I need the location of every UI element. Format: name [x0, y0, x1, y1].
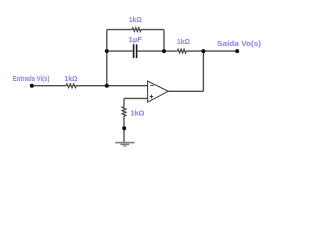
- node: ground branch dot: [122, 126, 126, 130]
- node: output junction dot: [201, 49, 205, 53]
- wire: top branch left lead: [107, 29, 132, 31]
- resistor R2 1k (top feedback) zigzag: [132, 28, 141, 32]
- svg-text:Saída Vo(s): Saída Vo(s): [217, 39, 262, 48]
- resistor R3 1k (output series) zigzag: [177, 49, 186, 53]
- resistor R4 1k (to ground) vertical zigzag: [122, 107, 126, 116]
- wire: left vertical from top branch to inverting-input node: [106, 30, 108, 86]
- wire: inverting node to op-amp minus input: [107, 85, 148, 87]
- svg-text:1kΩ: 1kΩ: [65, 74, 78, 83]
- node: right RC junction dot: [162, 49, 166, 53]
- node: inverting junction dot: [105, 84, 109, 88]
- wire: R3 to output node: [186, 50, 203, 52]
- op-amp plus sign: [150, 95, 154, 99]
- wire: right vertical of top branch: [163, 30, 165, 51]
- wire: op-amp plus input horizontal: [124, 97, 148, 99]
- op-amp U1 triangle: [148, 81, 169, 102]
- wire: capacitor right lead: [137, 50, 164, 52]
- svg-text:1kΩ: 1kΩ: [131, 108, 145, 117]
- svg-text:1µF: 1µF: [129, 35, 143, 44]
- wire: capacitor left lead: [107, 50, 133, 52]
- wire: input terminal to R1: [32, 85, 66, 87]
- wire: R1 to inverting node: [76, 85, 107, 87]
- node: left RC junction dot: [105, 49, 109, 53]
- wire: lead from node to R3: [164, 50, 177, 52]
- svg-text:1kΩ: 1kΩ: [129, 15, 142, 24]
- svg-text:1kΩ: 1kΩ: [177, 37, 190, 46]
- wire: R4 bottom to ground node: [123, 116, 125, 142]
- wire: op-amp output horizontal: [168, 90, 203, 92]
- capacitor C1 1uF plates: [133, 44, 138, 58]
- wire: feedback vertical from output node down to op-amp output: [202, 51, 204, 91]
- wire: top branch right lead: [141, 29, 164, 31]
- resistor R1 1k (input) zigzag: [66, 84, 76, 88]
- svg-text:Entrada Vi(s): Entrada Vi(s): [13, 74, 50, 83]
- node: output terminal dot: [235, 49, 239, 53]
- wire: output node to output terminal: [203, 50, 237, 52]
- op-amp minus sign: [150, 84, 153, 86]
- node: input terminal dot: [30, 84, 34, 88]
- wire: vertical from plus input down to R4: [123, 98, 125, 106]
- ground symbol: [115, 142, 134, 147]
